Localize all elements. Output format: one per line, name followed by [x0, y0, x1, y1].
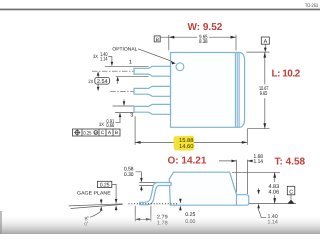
- svg-text:GAGE PLANE: GAGE PLANE: [77, 191, 111, 197]
- arrow 9.65 left: [169, 36, 175, 39]
- svg-text:W: 9.52: W: 9.52: [188, 22, 223, 33]
- optional hole circle: [176, 63, 184, 71]
- arrow 10.67 top up: [263, 52, 266, 58]
- package body outline top view: [171, 53, 245, 128]
- arrow 15.88 right: [242, 141, 248, 144]
- svg-text:L: 10.2: L: 10.2: [272, 68, 301, 79]
- svg-text:A: A: [264, 39, 268, 45]
- svg-text:B: B: [115, 130, 118, 136]
- svg-text:B: B: [156, 37, 159, 43]
- wire: tail tab top arrow: [258, 188, 260, 190]
- wire: centerline pin1: [92, 70, 176, 72]
- wire: dim line 9.65 left segment: [160, 36, 197, 38]
- wire: 0.25 box elbow: [112, 184, 116, 199]
- wire: leader 1.40 elbow: [108, 57, 112, 62]
- arrow tab bottom up: [257, 204, 260, 209]
- tab boundary line: [234, 53, 236, 127]
- wire: ext bottom 10.67: [247, 128, 269, 130]
- wire: lead ext bottom: [139, 185, 158, 187]
- bottom gradient: [0, 214, 320, 234]
- wire: tail 0.91 arrow: [123, 99, 125, 101]
- wire: ext 15.88 right: [246, 129, 248, 145]
- wire: tail angle arrows: [100, 199, 102, 200]
- wire: top ext 4.83: [232, 171, 280, 173]
- wire: ext line 9.65 right: [235, 35, 237, 51]
- wire: ext 2.79 right: [150, 206, 152, 222]
- svg-text:0.25: 0.25: [83, 130, 91, 136]
- pin 3: [134, 104, 171, 114]
- wire: dim 2.79: [135, 218, 151, 220]
- svg-text:8.38: 8.38: [199, 39, 207, 45]
- datum C triangle: [288, 200, 295, 204]
- wire: dim 4.83 lower: [274, 195, 276, 203]
- arrow angle down: [100, 200, 103, 205]
- arrow lead top down: [140, 178, 143, 183]
- arrow gage down: [115, 199, 118, 204]
- wire: A datum stem: [264, 44, 266, 48]
- wire: angle leader curve: [90, 211, 101, 217]
- svg-text:0.30: 0.30: [124, 172, 134, 178]
- boxed 0.25 frame: [98, 181, 112, 187]
- arrow 0.91 down: [123, 101, 126, 106]
- arrow 2.79 right: [146, 218, 151, 221]
- arrow 0.66 up: [119, 113, 122, 118]
- svg-text:2X: 2X: [88, 79, 93, 85]
- wire: 0.25/0.00 stem: [179, 207, 181, 211]
- svg-text:1.14: 1.14: [254, 159, 264, 165]
- wire: ext line 9.65 left: [168, 35, 170, 51]
- arrow 1.68 right-pointing: [232, 160, 237, 163]
- datum box A: [261, 37, 269, 44]
- arrow 2.79 left: [135, 218, 140, 221]
- wire: ext top 10.67: [247, 51, 270, 53]
- arrow A-datum down: [264, 48, 267, 53]
- header rule: [0, 9, 320, 11]
- wire: ext 1.68 left: [236, 160, 238, 193]
- svg-text:9.65: 9.65: [260, 91, 268, 97]
- wire: 1.68 dim tail left: [219, 160, 237, 162]
- wire: dim line 10.67 upper: [264, 52, 266, 84]
- arrow 15.88 left: [135, 141, 141, 144]
- arrow 1.14 up: [116, 76, 119, 81]
- wire: dim line 9.65 right segment: [209, 36, 236, 38]
- wire: ext pin1 bottom: [116, 75, 149, 77]
- arrowhead OPTIONAL leader: [171, 61, 176, 65]
- dim text 15.88/14.60: [179, 138, 193, 150]
- arrow lead bottom up: [140, 186, 143, 191]
- tab inner line side view: [236, 195, 238, 206]
- svg-text:3X: 3X: [99, 122, 105, 128]
- side view package body: [140, 172, 249, 205]
- top view package: [134, 53, 245, 128]
- arrow angle up: [100, 206, 103, 211]
- svg-text:OPTIONAL: OPTIONAL: [112, 46, 137, 52]
- feature control frame: [73, 129, 121, 136]
- svg-text:C: C: [101, 130, 105, 136]
- arrow gage up: [115, 205, 118, 210]
- wire: datum C stem: [290, 195, 292, 200]
- datum box B: [154, 36, 160, 42]
- wire: tail 2.54 down arrow: [97, 84, 99, 87]
- datum box C: [287, 186, 295, 195]
- arrow standoff up: [179, 206, 182, 211]
- dimension arrowheads top view: [97, 36, 267, 144]
- tab bend line 1: [236, 53, 238, 127]
- wire: ext pin3 top: [113, 105, 135, 107]
- svg-text:O: 14.21: O: 14.21: [168, 155, 207, 166]
- arrow standoff down: [179, 199, 182, 204]
- svg-text:T: 4.58: T: 4.58: [275, 157, 306, 168]
- arrow 4.83 down: [273, 198, 276, 204]
- svg-text:C: C: [289, 190, 293, 196]
- wire: dim line 15.88: [135, 141, 247, 143]
- arrow tab top down: [257, 190, 260, 195]
- wire: dim line 10.67 lower: [264, 98, 266, 129]
- pin 2: [134, 86, 171, 96]
- pin 1: [134, 66, 171, 76]
- svg-text:TO-263: TO-263: [305, 3, 318, 9]
- yellow highlight: [173, 136, 194, 151]
- svg-text:1.14: 1.14: [100, 57, 107, 63]
- side view dim texts: [77, 154, 279, 228]
- wire: tail 0.30 up arrow: [140, 190, 142, 192]
- arrow 2.54 down: [97, 87, 100, 92]
- svg-text:4.06: 4.06: [269, 190, 280, 196]
- wire: seating plane ext: [247, 203, 297, 205]
- tab bend line 2: [238, 53, 240, 127]
- svg-text:0.66: 0.66: [106, 123, 114, 129]
- wire: tail gage up arrow: [115, 210, 117, 211]
- wire: tail 2.54 up arrow: [97, 76, 99, 78]
- wire: gage angle line upper: [69, 204, 123, 206]
- left edge shadow: [0, 211, 2, 234]
- wire: ext pin3 bottom: [115, 112, 134, 114]
- wire: leader 0.66 elbow: [116, 115, 121, 123]
- wire: lead ext top: [139, 182, 157, 184]
- svg-text:1: 1: [129, 60, 132, 66]
- wire: 1.40 leader: [259, 208, 267, 218]
- arrow 1.40 down: [111, 62, 114, 67]
- wire: dim 4.83 upper: [274, 172, 276, 182]
- wire: 0.58 leader elbow: [136, 172, 142, 178]
- side view arrowheads: [100, 160, 295, 221]
- svg-text:14.60: 14.60: [179, 144, 193, 150]
- svg-text:3: 3: [130, 113, 133, 119]
- wire: ext 15.88 left: [134, 116, 136, 145]
- package body outline side view: [169, 172, 249, 205]
- wire: 1.68 dim tail right: [248, 160, 254, 162]
- svg-text:M: M: [94, 131, 97, 135]
- wire: OPTIONAL leader: [138, 49, 174, 62]
- svg-text:3X: 3X: [93, 54, 99, 60]
- wire: tail 1.14 arrow: [117, 80, 119, 84]
- gage plane dotted line: [129, 203, 179, 205]
- lead side profile: [140, 183, 171, 205]
- wire: gage angle line lower: [71, 204, 123, 208]
- boxed 2.54 frame: [95, 77, 110, 84]
- wire: ext 2.79 left: [134, 206, 136, 222]
- arrow 9.65 right: [231, 36, 237, 39]
- wire: centerline pin2: [110, 90, 176, 92]
- arrow 2.54 up: [97, 71, 100, 76]
- arrow 10.67 bottom down: [263, 123, 266, 129]
- wire: ext 1.68 right: [247, 160, 249, 194]
- wire: ext pin1 top: [105, 65, 149, 67]
- arrow 1.14 left-pointing: [248, 160, 253, 163]
- arrow 4.83 up: [273, 172, 276, 178]
